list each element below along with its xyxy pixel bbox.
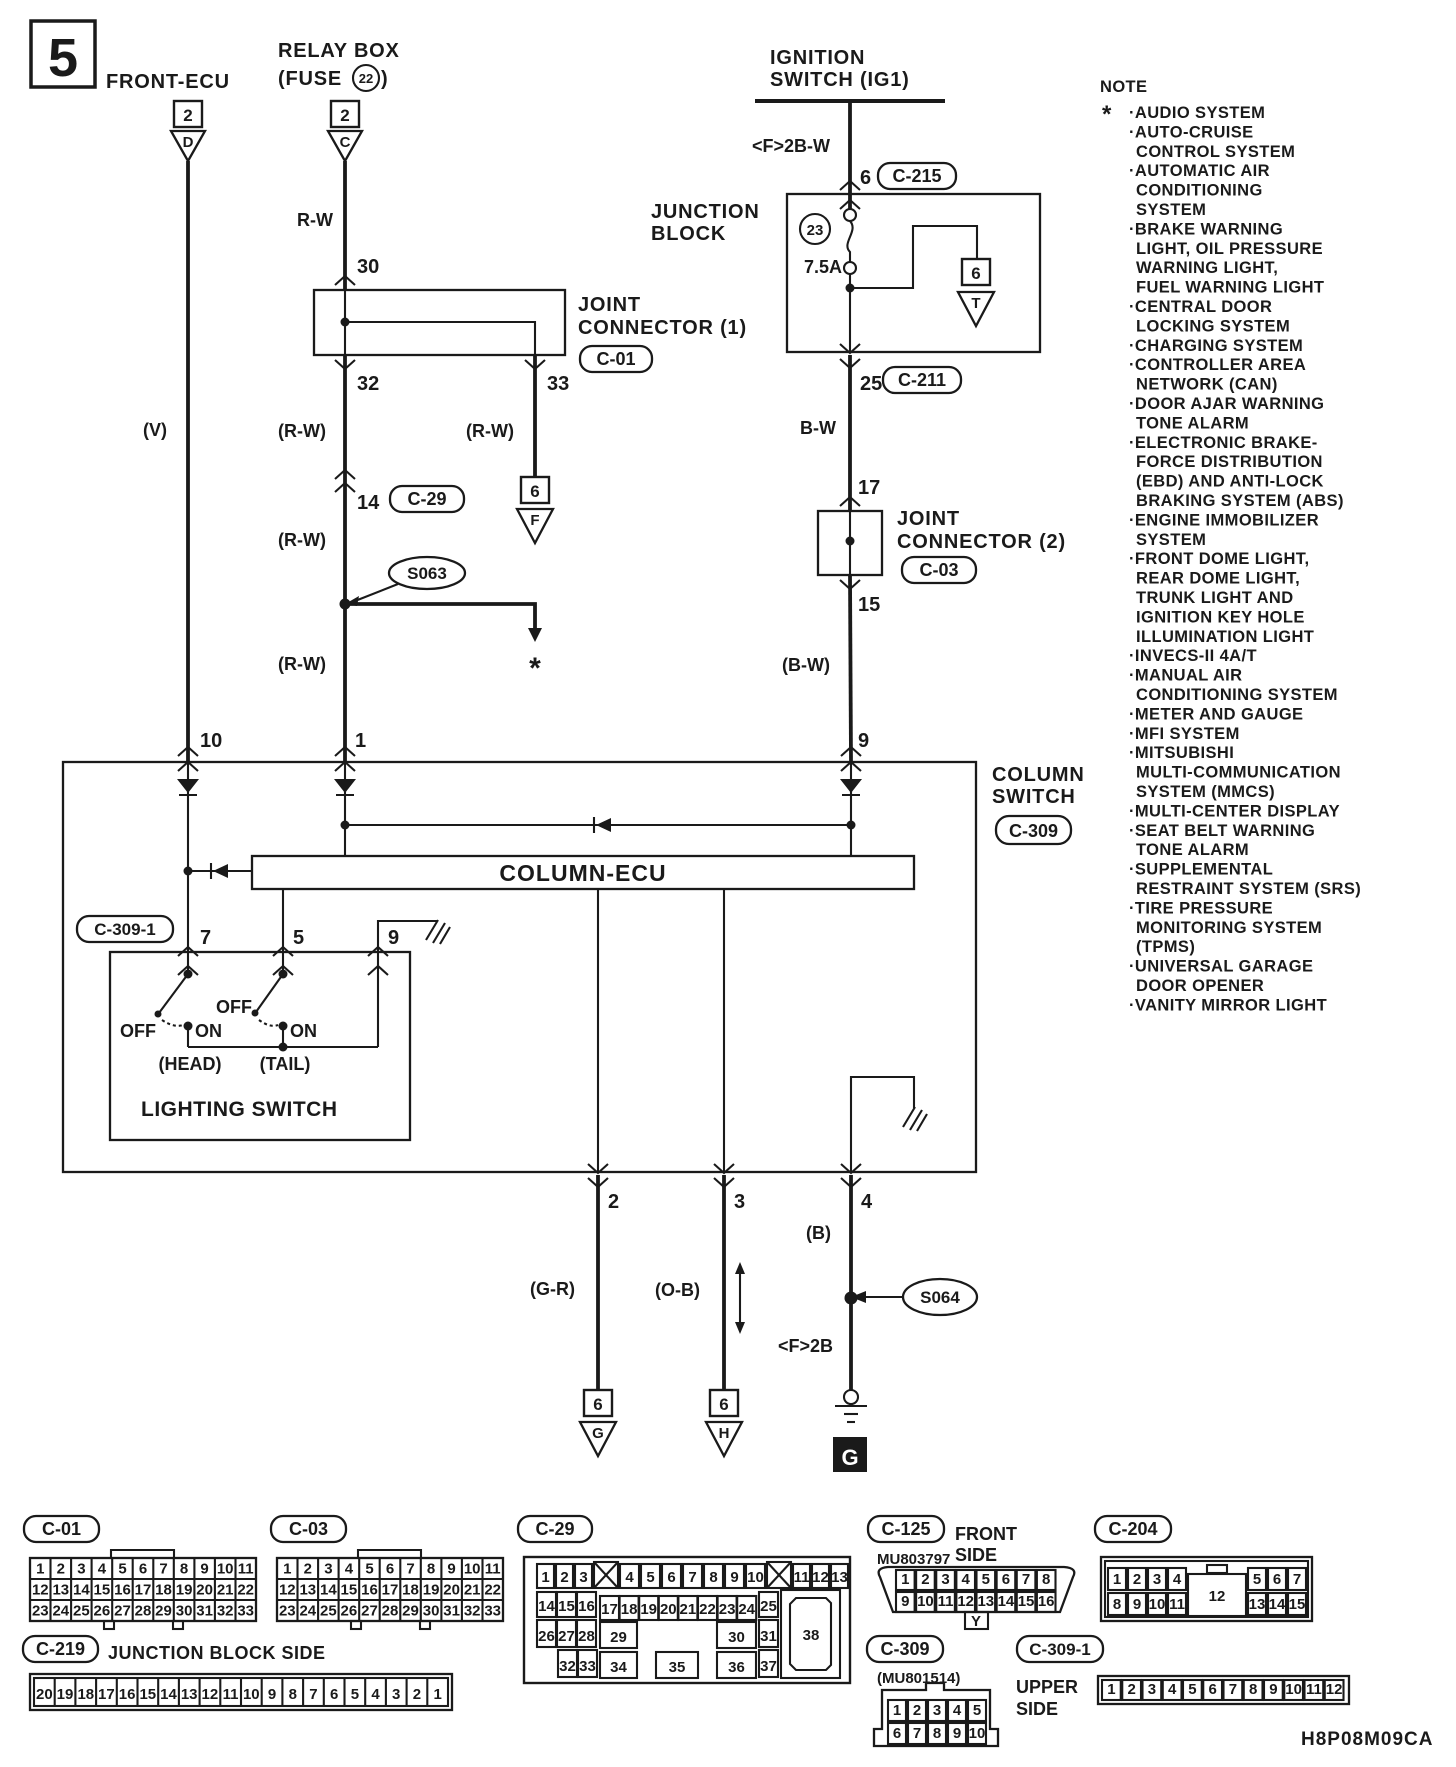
svg-text:C-219: C-219 [36,1639,85,1659]
svg-text:9: 9 [268,1686,276,1703]
connector C (RELAY BOX, 2-pin) [328,101,362,161]
svg-text:3: 3 [77,1561,85,1578]
svg-text:6: 6 [893,1725,901,1742]
svg-text:25: 25 [320,1603,337,1620]
svg-text:(HEAD): (HEAD) [159,1054,222,1074]
wire junction block to joint connector 2, B-W [848,355,852,511]
tail switch pole [252,970,288,1048]
svg-text:13: 13 [977,1593,994,1610]
svg-text:8: 8 [180,1561,188,1578]
joint connector 1 internal branch [345,322,535,355]
svg-text:S064: S064 [920,1288,960,1307]
svg-text:C-03: C-03 [289,1519,328,1539]
wire pin 2 to connector G, (G-R) [596,1175,600,1390]
svg-text:5: 5 [1188,1681,1196,1698]
svg-text:29: 29 [610,1629,627,1646]
column switch label [992,764,1085,808]
joint connector 2 label [897,508,1066,553]
svg-text:TRUNK LIGHT AND: TRUNK LIGHT AND [1136,589,1294,607]
fuse element [844,209,856,274]
node S063 [340,599,351,610]
svg-text:26: 26 [341,1603,358,1620]
connector T (6-pin) [958,259,994,326]
svg-text:JOINT: JOINT [897,508,960,530]
svg-text:29: 29 [155,1603,172,1620]
svg-text:3: 3 [933,1702,941,1719]
svg-text:13: 13 [299,1582,316,1599]
internal wire to column-ecu with diode [188,870,252,872]
svg-text:10: 10 [1285,1681,1302,1698]
svg-text:7: 7 [1022,1571,1030,1588]
svg-text:23: 23 [719,1601,736,1618]
svg-text:<F>2B-W: <F>2B-W [752,136,830,156]
wire pin 3 to connector H, (O-B) [722,1175,726,1390]
connector symbol pin 15 [840,580,860,589]
svg-text:12: 12 [1326,1681,1343,1698]
svg-text:TONE ALARM: TONE ALARM [1136,414,1249,432]
svg-text:14: 14 [73,1582,90,1599]
svg-text:T: T [971,295,980,312]
internal wire pin1 [344,762,346,856]
wire joint connector 1 pin 32 down to column switch [343,355,347,762]
svg-text:D: D [183,134,194,151]
svg-text:6: 6 [530,482,539,501]
svg-text:LIGHTING SWITCH: LIGHTING SWITCH [141,1098,337,1121]
svg-text:F: F [530,512,539,529]
connector C-219 pinout [23,1636,452,1710]
svg-text:(R-W): (R-W) [278,654,326,674]
svg-text:6: 6 [1002,1571,1010,1588]
svg-text:10: 10 [243,1686,260,1703]
svg-text:25: 25 [73,1603,90,1620]
svg-text:4: 4 [345,1561,354,1578]
svg-text:S063: S063 [407,564,447,583]
svg-text:15: 15 [558,1598,575,1615]
svg-text:26: 26 [538,1628,555,1645]
svg-text:5: 5 [293,927,304,949]
page number 5 box [31,21,95,88]
svg-text:4: 4 [962,1571,971,1588]
connector C-29 pinout [518,1516,850,1683]
svg-text:C-309-1: C-309-1 [94,920,155,939]
svg-text:28: 28 [578,1628,595,1645]
svg-text:SIDE: SIDE [955,1545,997,1565]
internal ground wire pin 4 [851,1077,914,1172]
svg-text:C-204: C-204 [1108,1519,1157,1539]
svg-text:3: 3 [392,1686,400,1703]
wire below fuse [849,274,851,352]
svg-text:28: 28 [135,1603,152,1620]
wire front-ecu to column switch, (V) [186,161,190,762]
svg-text:21: 21 [217,1582,234,1599]
svg-text:9: 9 [447,1561,455,1578]
svg-text:C-309-1: C-309-1 [1029,1640,1090,1659]
svg-text:8: 8 [1249,1681,1257,1698]
svg-text:11: 11 [794,1569,810,1586]
svg-text:11: 11 [1169,1596,1185,1613]
svg-text:32: 32 [559,1658,576,1675]
svg-text:G: G [841,1445,858,1470]
svg-text:21: 21 [680,1601,697,1618]
svg-text:4: 4 [98,1561,107,1578]
svg-text:24: 24 [738,1601,755,1618]
svg-text:C-309: C-309 [1009,821,1058,841]
svg-text:19: 19 [423,1582,440,1599]
svg-text:20: 20 [36,1686,53,1703]
diode pin 10 [177,779,199,793]
node junction in block [846,284,855,293]
svg-text:16: 16 [119,1686,136,1703]
connector symbols at lighting switch top [178,947,198,975]
head switch pole [155,970,193,1048]
svg-text:5: 5 [351,1686,359,1703]
wire branch to audio systems (*) [345,604,535,628]
svg-text:12: 12 [957,1593,974,1610]
svg-text:32: 32 [357,373,379,395]
svg-text:C-211: C-211 [898,370,946,390]
svg-text:31: 31 [443,1603,460,1620]
svg-text:9: 9 [1269,1681,1277,1698]
svg-text:WARNING LIGHT,: WARNING LIGHT, [1136,259,1278,277]
svg-text:LOCKING SYSTEM: LOCKING SYSTEM [1136,317,1290,335]
svg-text:6: 6 [971,264,980,283]
svg-text:·MANUAL AIR: ·MANUAL AIR [1129,667,1242,685]
ignition switch bus bar [755,99,945,103]
svg-text:6: 6 [1208,1681,1216,1698]
svg-text:10: 10 [464,1561,481,1578]
connector symbol pin 30 [335,276,355,285]
svg-text:18: 18 [77,1686,94,1703]
svg-text:(R-W): (R-W) [466,421,514,441]
svg-text:25: 25 [760,1598,777,1615]
connector F (6-pin) [517,477,553,543]
svg-text:JUNCTION: JUNCTION [651,201,760,223]
svg-text:26: 26 [94,1603,111,1620]
svg-text:13: 13 [181,1686,198,1703]
svg-text:7: 7 [159,1561,167,1578]
connector C-204 pinout [1095,1516,1312,1621]
svg-text:17: 17 [135,1582,152,1599]
svg-text:7: 7 [688,1569,696,1586]
svg-text:22: 22 [237,1582,254,1599]
svg-text:·CHARGING SYSTEM: ·CHARGING SYSTEM [1129,337,1303,355]
svg-text:2: 2 [560,1569,568,1586]
svg-text:10: 10 [917,1593,934,1610]
svg-text:22: 22 [359,71,373,86]
svg-text:*: * [529,652,541,685]
svg-text:1: 1 [541,1569,549,1586]
svg-text:6: 6 [139,1561,147,1578]
svg-text:CONDITIONING: CONDITIONING [1136,182,1263,200]
svg-text:): ) [381,68,388,90]
svg-text:CONDITIONING SYSTEM: CONDITIONING SYSTEM [1136,686,1338,704]
svg-text:·FRONT DOME LIGHT,: ·FRONT DOME LIGHT, [1129,550,1309,568]
svg-text:B-W: B-W [800,418,836,438]
svg-text:JOINT: JOINT [578,294,641,316]
svg-text:33: 33 [484,1603,501,1620]
svg-text:30: 30 [176,1603,193,1620]
svg-text:4: 4 [371,1686,380,1703]
svg-text:30: 30 [423,1603,440,1620]
twisted pair arrow [735,1262,745,1334]
wire ecu to lighting switch pin 5 [282,889,284,974]
junction block label [651,201,760,245]
svg-text:11: 11 [938,1593,954,1610]
svg-text:10: 10 [1149,1596,1166,1613]
svg-text:3: 3 [1153,1571,1161,1588]
svg-text:2: 2 [57,1561,65,1578]
svg-text:32: 32 [464,1603,481,1620]
svg-text:1: 1 [355,730,366,752]
svg-text:14: 14 [320,1582,337,1599]
svg-text:2: 2 [1133,1571,1141,1588]
svg-text:16: 16 [361,1582,378,1599]
svg-text:16: 16 [1038,1593,1055,1610]
svg-text:10: 10 [747,1569,764,1586]
svg-text:5: 5 [1253,1571,1261,1588]
svg-text:·MITSUBISHI: ·MITSUBISHI [1129,744,1234,762]
svg-text:17: 17 [601,1601,618,1618]
svg-text:11: 11 [1306,1681,1322,1698]
diode pin 9 [840,779,862,793]
svg-text:4: 4 [861,1191,873,1213]
svg-text:·SUPPLEMENTAL: ·SUPPLEMENTAL [1129,861,1273,879]
svg-text:(R-W): (R-W) [278,421,326,441]
svg-text:BLOCK: BLOCK [651,223,726,245]
svg-text:4: 4 [953,1702,962,1719]
svg-text:(G-R): (G-R) [530,1279,575,1299]
svg-text:2: 2 [413,1686,421,1703]
svg-text:4: 4 [625,1569,634,1586]
svg-text:RELAY BOX: RELAY BOX [278,40,400,62]
svg-text:24: 24 [299,1603,316,1620]
svg-text:12: 12 [812,1569,829,1586]
svg-text:CONNECTOR (2): CONNECTOR (2) [897,531,1066,553]
svg-text:7: 7 [1293,1571,1301,1588]
svg-text:OFF: OFF [120,1021,156,1041]
connector C-01 pinout [24,1516,256,1629]
svg-text:5: 5 [118,1561,126,1578]
svg-text:UPPER: UPPER [1016,1677,1078,1697]
wire pin 4 to ground, (B) [849,1175,853,1390]
svg-text:6: 6 [330,1686,338,1703]
svg-text:8: 8 [933,1725,941,1742]
svg-text:ON: ON [195,1021,222,1041]
column switch box [63,762,976,1172]
svg-text:H: H [719,1425,730,1442]
svg-text:6: 6 [593,1395,602,1414]
connector C-03 pinout [271,1516,503,1629]
svg-text:JUNCTION BLOCK SIDE: JUNCTION BLOCK SIDE [108,1643,326,1663]
svg-text:LIGHT, OIL PRESSURE: LIGHT, OIL PRESSURE [1136,240,1323,258]
svg-text:·SEAT BELT WARNING: ·SEAT BELT WARNING [1129,822,1315,840]
svg-text:2: 2 [608,1191,619,1213]
svg-text:14: 14 [1269,1596,1286,1613]
svg-text:2: 2 [1127,1681,1135,1698]
svg-text:12: 12 [1209,1588,1226,1605]
svg-text:19: 19 [57,1686,74,1703]
svg-text:33: 33 [237,1603,254,1620]
svg-text:8: 8 [709,1569,717,1586]
wire joint connector 1 pin 33 to connector F [533,355,537,477]
svg-text:25: 25 [860,373,882,395]
svg-text:·ENGINE IMMOBILIZER: ·ENGINE IMMOBILIZER [1129,511,1319,529]
svg-text:8: 8 [289,1686,297,1703]
svg-text:34: 34 [610,1659,627,1676]
svg-text:·CONTROLLER AREA: ·CONTROLLER AREA [1129,356,1306,374]
svg-text:20: 20 [443,1582,460,1599]
svg-text:2: 2 [183,106,192,125]
svg-text:C-125: C-125 [881,1519,930,1539]
svg-text:14: 14 [538,1598,555,1615]
svg-text:29: 29 [402,1603,419,1620]
svg-text:13: 13 [831,1569,848,1586]
svg-text:<F>2B: <F>2B [778,1336,833,1356]
svg-text:12: 12 [202,1686,219,1703]
svg-text:SWITCH (IG1): SWITCH (IG1) [770,69,910,91]
svg-text:15: 15 [94,1582,111,1599]
svg-text:19: 19 [176,1582,193,1599]
svg-text:15: 15 [1289,1596,1306,1613]
connector C-211 capsule [883,367,961,393]
svg-text:1: 1 [901,1571,909,1588]
connector symbols at column switch bottom [588,1164,608,1187]
svg-text:11: 11 [485,1561,501,1578]
svg-text:5: 5 [365,1561,373,1578]
svg-text:5: 5 [646,1569,654,1586]
svg-text:14: 14 [357,492,380,514]
svg-text:20: 20 [196,1582,213,1599]
internal wire ecu pin 3 [723,889,725,1172]
svg-text:3: 3 [579,1569,587,1586]
svg-text:18: 18 [155,1582,172,1599]
svg-text:(EBD) AND ANTI-LOCK: (EBD) AND ANTI-LOCK [1136,473,1324,491]
svg-text:MU803797: MU803797 [877,1551,950,1568]
connector symbol pin 33 [525,360,545,369]
svg-text:4: 4 [1168,1681,1177,1698]
connector C-125 pinout [868,1516,1074,1630]
svg-text:DOOR OPENER: DOOR OPENER [1136,977,1264,995]
svg-text:18: 18 [402,1582,419,1599]
svg-text:15: 15 [341,1582,358,1599]
svg-text:6: 6 [1273,1571,1281,1588]
ground (lighting switch) [426,920,450,944]
svg-text:1: 1 [1107,1681,1115,1698]
internal wire pin9 [850,762,852,856]
connector C-309 capsule [996,816,1071,844]
svg-text:32: 32 [217,1603,234,1620]
svg-text:·AUTO-CRUISE: ·AUTO-CRUISE [1129,123,1254,141]
svg-text:R-W: R-W [297,210,333,230]
wire branch to connector T [850,226,977,288]
svg-text:17: 17 [382,1582,399,1599]
svg-text:SYSTEM: SYSTEM [1136,201,1206,219]
svg-text:·INVECS-II 4A/T: ·INVECS-II 4A/T [1129,647,1257,665]
svg-text:12: 12 [32,1582,49,1599]
svg-text:15: 15 [1018,1593,1035,1610]
svg-text:15: 15 [858,594,880,616]
wire joint connector 2 to column switch, (B-W) [850,575,851,762]
svg-text:IGNITION: IGNITION [770,47,865,69]
svg-text:24: 24 [52,1603,69,1620]
svg-text:(B): (B) [806,1223,831,1243]
inline connector C-29 symbol [335,470,355,492]
svg-text:9: 9 [953,1725,961,1742]
svg-text:7: 7 [200,927,211,949]
svg-text:2: 2 [921,1571,929,1588]
svg-text:TONE ALARM: TONE ALARM [1136,841,1249,859]
svg-text:RESTRAINT SYSTEM (SRS): RESTRAINT SYSTEM (SRS) [1136,880,1361,898]
svg-text:3: 3 [1148,1681,1156,1698]
svg-text:16: 16 [578,1598,595,1615]
connector C-309-1 capsule [77,916,173,942]
connector G (6-pin) [580,1390,616,1456]
connector C-215 capsule [878,163,956,189]
connector C-01 capsule [580,346,652,372]
svg-text:2: 2 [340,106,349,125]
wire relay box to joint connector 1, R-W [343,161,347,290]
connector C-309-1 pinout [1016,1636,1349,1719]
svg-text:14: 14 [160,1686,177,1703]
svg-text:MULTI-COMMUNICATION: MULTI-COMMUNICATION [1136,764,1341,782]
svg-text:C-03: C-03 [919,560,958,580]
svg-text:(TPMS): (TPMS) [1136,938,1195,956]
svg-text:19: 19 [640,1601,657,1618]
svg-text:COLUMN-ECU: COLUMN-ECU [499,860,666,886]
svg-text:C-01: C-01 [596,349,635,369]
wire pin 9 to ground [378,921,437,1047]
svg-text:2: 2 [913,1702,921,1719]
svg-text:13: 13 [1249,1596,1266,1613]
connector C-03 capsule [902,557,976,583]
svg-text:7: 7 [309,1686,317,1703]
joint connector 2 box [818,511,882,575]
note list [1129,104,1361,1014]
svg-text:7: 7 [913,1725,921,1742]
ignition switch label [770,47,910,91]
svg-text:14: 14 [998,1593,1015,1610]
svg-text:28: 28 [382,1603,399,1620]
svg-text:·CENTRAL DOOR: ·CENTRAL DOOR [1129,298,1272,316]
svg-text:9: 9 [858,730,869,752]
svg-text:36: 36 [728,1659,745,1676]
svg-text:·METER AND GAUGE: ·METER AND GAUGE [1129,705,1303,723]
svg-text:3: 3 [734,1191,745,1213]
svg-text:5: 5 [48,28,78,88]
svg-text:G: G [592,1425,604,1442]
splice S063 [345,557,465,606]
svg-text:9: 9 [388,927,399,949]
svg-text:1: 1 [36,1561,44,1578]
svg-text:7.5A: 7.5A [804,257,842,277]
svg-text:·MFI SYSTEM: ·MFI SYSTEM [1129,725,1240,743]
svg-text:16: 16 [114,1582,131,1599]
svg-text:SIDE: SIDE [1016,1699,1058,1719]
svg-text:·ELECTRONIC BRAKE-: ·ELECTRONIC BRAKE- [1129,434,1318,452]
svg-text:·UNIVERSAL GARAGE: ·UNIVERSAL GARAGE [1129,958,1313,976]
fuse 23 circle label [800,214,830,244]
svg-text:1: 1 [283,1561,291,1578]
svg-text:SWITCH: SWITCH [992,786,1076,808]
svg-text:23: 23 [807,222,824,239]
svg-text:10: 10 [200,730,222,752]
svg-text:FRONT: FRONT [955,1524,1017,1544]
svg-text:·BRAKE WARNING: ·BRAKE WARNING [1129,220,1283,238]
svg-text:4: 4 [1173,1571,1182,1588]
svg-text:27: 27 [558,1628,575,1645]
svg-text:MONITORING SYSTEM: MONITORING SYSTEM [1136,919,1322,937]
svg-text:C-309: C-309 [880,1639,929,1659]
